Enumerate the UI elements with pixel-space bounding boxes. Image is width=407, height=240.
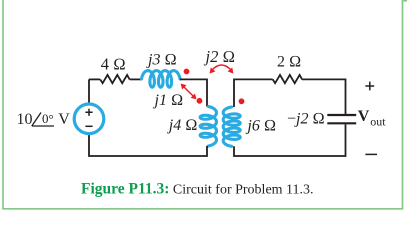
svg-text:−j2 Ω: −j2 Ω <box>287 111 325 128</box>
svg-text:10: 10 <box>17 111 33 128</box>
resistor 2ohm zigzag <box>273 75 302 83</box>
minus terminal of Vout <box>365 153 377 155</box>
mutual coupling arrow j2 (curved double-headed) <box>210 65 234 74</box>
capacitor -j2 top plate <box>327 114 356 116</box>
wire: capacitor bottom to bottom-right wire to j6 <box>234 124 346 156</box>
wire: j3 to top corner of primary branch <box>180 79 207 106</box>
capacitor -j2 bottom plate <box>327 122 356 124</box>
svg-text:out: out <box>370 115 386 129</box>
svg-text:j2 Ω: j2 Ω <box>204 47 236 66</box>
svg-text:2 Ω: 2 Ω <box>277 54 301 71</box>
wire: secondary branch top corner to resistor 2ohm <box>234 79 273 107</box>
source plus sign <box>85 109 92 116</box>
wire: resistor to inductor j3 <box>130 78 142 80</box>
svg-text:j1 Ω: j1 Ω <box>153 92 184 109</box>
plus terminal of Vout <box>365 82 374 91</box>
svg-text:j3 Ω: j3 Ω <box>146 52 177 69</box>
inductor j6 coil (secondary winding) <box>223 107 240 146</box>
svg-text:j6 Ω: j6 Ω <box>245 118 276 135</box>
source minus sign <box>85 125 92 127</box>
inductor j4 coil (primary winding) <box>200 107 216 147</box>
svg-text:0°: 0° <box>42 111 54 126</box>
dot marker on j3 <box>184 69 190 75</box>
resistor 4ohm zigzag <box>100 75 129 83</box>
mutual coupling arrow j1 (double-headed) <box>181 84 197 100</box>
dot marker on j4 <box>197 98 203 104</box>
wire: top-left horizontal to resistor R1 <box>89 78 100 80</box>
svg-text:Figure P11.3: Circuit for Prob: Figure P11.3: Circuit for Problem 11.3. <box>81 180 314 197</box>
wire: j4 bottom to bottom-left wire back to source <box>89 134 207 156</box>
frame top-right stub <box>403 0 407 2</box>
svg-text:4 Ω: 4 Ω <box>101 55 126 74</box>
svg-text:V: V <box>58 111 70 128</box>
dot marker on j6 <box>239 98 245 104</box>
inductor j3 coil <box>142 71 181 88</box>
svg-text:j4 Ω: j4 Ω <box>167 117 198 134</box>
voltage source VS circle <box>74 104 104 134</box>
angle symbol lines <box>32 113 54 127</box>
svg-text:V: V <box>358 108 370 125</box>
wire: 2ohm to right branch down to capacitor <box>302 79 345 114</box>
wire: left vertical from source top to corner <box>88 79 90 104</box>
